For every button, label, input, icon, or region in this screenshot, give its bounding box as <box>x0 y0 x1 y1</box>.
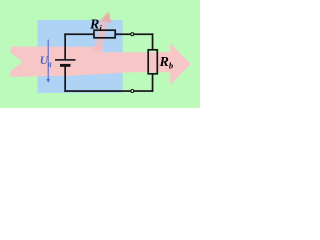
resistor Ri <box>94 30 115 38</box>
wire bottom <box>64 90 153 92</box>
terminal node top <box>131 33 134 36</box>
wire battery top <box>64 33 66 59</box>
wire top <box>64 33 94 35</box>
wire right down (upper) <box>152 33 154 50</box>
wire right down (lower) <box>152 74 154 92</box>
wire battery bottom <box>64 66 66 92</box>
wire top right <box>115 33 153 35</box>
battery long plate <box>55 59 76 61</box>
voltage arrow Uq <box>47 40 50 83</box>
resistor Rb <box>148 50 157 74</box>
source box (real voltage source) <box>38 20 123 93</box>
power flow arrow (main band to load) <box>11 43 192 85</box>
battery short plate <box>60 64 71 67</box>
terminal node bottom <box>131 90 134 93</box>
